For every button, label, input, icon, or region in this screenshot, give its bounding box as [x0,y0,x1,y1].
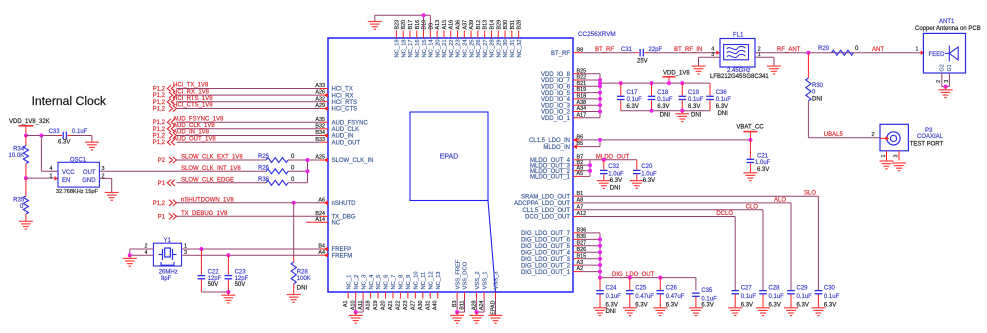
svg-text:SLOW_CLK_INT_1V8: SLOW_CLK_INT_1V8 [181,166,241,172]
svg-text:A22: A22 [395,301,401,311]
svg-text:VBAT_CC: VBAT_CC [736,124,764,130]
svg-text:DNI: DNI [297,286,308,292]
svg-text:A21: A21 [388,301,394,311]
svg-text:R34: R34 [13,147,25,153]
svg-text:0.1uF: 0.1uF [769,294,785,300]
svg-text:UBAL5: UBAL5 [824,132,844,138]
svg-text:R26: R26 [258,165,270,171]
svg-text:B9: B9 [428,23,434,30]
svg-text:NC_13: NC_13 [436,271,442,289]
svg-text:6.3V: 6.3V [635,302,647,308]
svg-text:G2: G2 [939,64,945,71]
svg-text:A37: A37 [462,20,468,30]
svg-text:GND: GND [82,178,96,184]
svg-text:TEST PORT: TEST PORT [910,142,944,148]
svg-text:Internal Clock: Internal Clock [32,94,107,108]
svg-text:FL1: FL1 [733,33,744,39]
svg-text:6.3V: 6.3V [666,302,678,308]
svg-text:B13: B13 [483,20,489,30]
svg-text:ALO: ALO [774,197,786,203]
svg-text:SLOW_CLK_EXT_1V8: SLOW_CLK_EXT_1V8 [181,155,243,161]
svg-text:A40: A40 [433,301,439,311]
svg-text:P1,2: P1,2 [153,201,166,207]
svg-text:FEED: FEED [929,52,946,58]
svg-text:A31: A31 [425,301,431,311]
svg-text:nSHUTDOWN_1V8: nSHUTDOWN_1V8 [181,197,234,203]
svg-text:A1: A1 [343,300,349,307]
svg-text:Y1: Y1 [164,238,172,244]
svg-text:4: 4 [50,166,53,172]
svg-text:C24: C24 [606,285,618,291]
svg-text:G1: G1 [947,64,953,71]
svg-text:NC_29: NC_29 [496,39,502,57]
svg-text:EN: EN [62,178,70,184]
svg-text:CLO: CLO [746,204,759,210]
svg-text:HCI_CTS_1V8: HCI_CTS_1V8 [173,103,213,109]
svg-text:26MHz: 26MHz [159,269,178,275]
svg-text:0.1uF: 0.1uF [716,97,732,103]
svg-text:FREFM: FREFM [332,253,353,259]
svg-text:A20: A20 [381,301,387,311]
svg-text:6.3V: 6.3V [741,302,753,308]
svg-text:DIG_LDO_OUT_2: DIG_LDO_OUT_2 [521,263,571,269]
svg-text:FREFP: FREFP [332,247,352,253]
svg-text:R28: R28 [297,269,309,275]
svg-text:P3: P3 [925,128,933,134]
svg-text:NC_15: NC_15 [422,39,428,57]
svg-text:A16: A16 [449,20,455,30]
svg-text:C35: C35 [701,288,713,294]
svg-text:NC: NC [332,220,341,226]
svg-text:DCO_LDO_OUT: DCO_LDO_OUT [525,215,570,221]
svg-text:DNI: DNI [660,113,671,119]
svg-text:DIG_LDO_OUT_7: DIG_LDO_OUT_7 [521,231,571,237]
svg-text:B12: B12 [476,20,482,30]
svg-text:P1,2: P1,2 [153,93,166,99]
svg-text:NC_6: NC_6 [384,275,390,290]
svg-text:B31: B31 [510,20,516,30]
svg-text:6.3V: 6.3V [769,302,781,308]
svg-text:VDD_IO_5: VDD_IO_5 [541,91,571,97]
svg-text:0: 0 [812,90,816,96]
svg-text:6.3V: 6.3V [701,302,713,308]
svg-text:NC_28: NC_28 [490,39,496,57]
svg-text:A15: A15 [442,20,448,30]
svg-text:0.47uF: 0.47uF [635,294,654,300]
svg-text:C21: C21 [757,153,769,159]
svg-text:B28: B28 [517,20,523,30]
svg-text:B10: B10 [422,20,428,30]
svg-text:1: 1 [50,174,53,180]
svg-text:6.3V: 6.3V [58,140,70,146]
svg-text:NC_5: NC_5 [376,275,382,290]
svg-text:2: 2 [936,80,942,83]
svg-text:R36: R36 [258,177,270,183]
svg-text:DCLO: DCLO [716,211,733,217]
svg-text:R25: R25 [258,154,270,160]
svg-text:P1,2: P1,2 [153,140,166,146]
svg-text:BT_RF: BT_RF [595,47,614,53]
svg-text:DNI: DNI [606,309,617,315]
svg-text:A13: A13 [435,20,441,30]
svg-text:NC_31: NC_31 [510,39,516,57]
svg-text:C17: C17 [627,90,639,96]
svg-text:EPAD: EPAD [440,154,459,161]
svg-text:A18: A18 [366,301,372,311]
svg-text:NC_21: NC_21 [442,39,448,57]
svg-text:C26: C26 [666,285,678,291]
svg-text:SLO: SLO [804,191,816,197]
svg-text:RF_ANT: RF_ANT [777,47,801,53]
svg-text:6.3V: 6.3V [757,167,769,173]
svg-text:HCI_RX: HCI_RX [332,93,354,99]
svg-text:ANT: ANT [872,47,884,53]
svg-text:R29: R29 [818,46,830,52]
svg-text:VSS_DCO: VSS_DCO [463,261,469,289]
svg-text:C30: C30 [824,285,836,291]
svg-text:AUD_CLK: AUD_CLK [332,127,360,133]
svg-text:HCI_RTS: HCI_RTS [332,100,358,106]
svg-text:NC_11: NC_11 [421,272,427,290]
svg-text:6.3V: 6.3V [688,104,700,110]
svg-text:AUD_FSYNC_1V8: AUD_FSYNC_1V8 [173,116,224,122]
svg-text:NC_10: NC_10 [414,271,420,289]
svg-text:C28: C28 [769,285,781,291]
svg-text:VDD_IO_8: VDD_IO_8 [541,72,571,78]
svg-text:0.1uF: 0.1uF [688,97,704,103]
svg-text:HCI_RX_1V8: HCI_RX_1V8 [173,89,210,95]
svg-text:0: 0 [291,177,295,183]
svg-text:NC_8: NC_8 [399,275,405,290]
svg-text:P1,2: P1,2 [153,107,166,113]
svg-text:6.3V: 6.3V [824,302,836,308]
svg-text:VDD_IO_7: VDD_IO_7 [541,78,571,84]
svg-text:P1,2: P1,2 [153,134,166,140]
svg-text:NC_24: NC_24 [463,39,469,58]
svg-text:VDD_1V8: VDD_1V8 [663,71,690,77]
svg-text:AUD_IN_1V8: AUD_IN_1V8 [173,130,210,136]
svg-text:10.0K: 10.0K [9,153,25,159]
svg-text:6.3V: 6.3V [716,104,728,110]
svg-text:VDD_IO_2: VDD_IO_2 [541,110,571,116]
svg-text:A14: A14 [315,217,325,223]
svg-text:CL1.5_LDO_OUT: CL1.5_LDO_OUT [522,208,570,214]
svg-text:OSC1: OSC1 [70,157,87,163]
svg-text:A23: A23 [403,301,409,311]
svg-text:DIG_LDO_OUT_5: DIG_LDO_OUT_5 [521,244,571,250]
svg-text:BT_RF: BT_RF [551,51,570,57]
svg-text:A27: A27 [410,301,416,311]
svg-text:50V: 50V [208,282,219,288]
svg-text:B17: B17 [408,20,414,30]
svg-text:NC_22: NC_22 [449,39,455,57]
svg-text:B16: B16 [415,20,421,30]
svg-text:P1: P1 [158,214,166,220]
svg-text:6.3V: 6.3V [657,104,669,110]
svg-text:VDD_IO_4: VDD_IO_4 [541,97,571,103]
svg-text:1: 1 [881,155,887,158]
svg-text:ADCPPA_LDO_OUT: ADCPPA_LDO_OUT [514,201,570,207]
svg-text:0.1uF: 0.1uF [741,294,757,300]
svg-text:B14: B14 [489,20,495,30]
svg-text:LFB212G45SG8C341: LFB212G45SG8C341 [710,74,769,80]
svg-text:NC_26: NC_26 [476,39,482,57]
svg-text:P1,2: P1,2 [153,127,166,133]
svg-text:50V: 50V [235,282,246,288]
svg-text:1.0uF: 1.0uF [641,171,657,177]
svg-text:1.0uF: 1.0uF [608,171,624,177]
svg-text:AUD_OUT: AUD_OUT [332,140,361,146]
svg-text:CL1.5_LDO_IN: CL1.5_LDO_IN [529,138,570,144]
svg-text:2: 2 [872,132,875,138]
svg-text:12pF: 12pF [235,276,249,282]
svg-text:Copper Antenna on PCB: Copper Antenna on PCB [915,26,981,32]
svg-text:DIG_LDO_OUT_6: DIG_LDO_OUT_6 [521,238,571,244]
svg-text:P1: P1 [158,181,166,187]
svg-text:NC_27: NC_27 [483,39,489,57]
svg-text:DNI: DNI [812,97,823,103]
svg-text:NC_23: NC_23 [456,39,462,57]
svg-text:NC_12: NC_12 [428,271,434,289]
svg-text:BT_RF_IN: BT_RF_IN [674,47,702,53]
svg-text:VDD_1V8_32K: VDD_1V8_32K [9,119,50,125]
svg-text:MLDO_IN: MLDO_IN [543,145,570,151]
svg-text:VCC: VCC [62,170,75,176]
svg-text:C19: C19 [688,90,700,96]
svg-text:12pF: 12pF [208,276,222,282]
svg-text:NC_3: NC_3 [361,275,367,290]
svg-text:B30: B30 [503,20,509,30]
svg-text:NC_18: NC_18 [401,39,407,57]
svg-text:B20: B20 [401,20,407,30]
svg-text:C29: C29 [797,285,809,291]
svg-text:3: 3 [102,166,105,172]
svg-text:NC_30: NC_30 [503,39,509,57]
svg-text:R35: R35 [13,197,25,203]
svg-text:6.3V: 6.3V [797,302,809,308]
svg-text:6.3V: 6.3V [610,178,622,184]
svg-text:DNI: DNI [691,113,702,119]
svg-text:NC_1: NC_1 [346,275,352,290]
svg-text:0.1uF: 0.1uF [824,294,840,300]
svg-text:ANT1: ANT1 [939,19,955,25]
svg-text:B29: B29 [496,20,502,30]
svg-text:C18: C18 [657,90,669,96]
svg-text:C25: C25 [635,285,647,291]
svg-text:P2: P2 [158,158,166,164]
svg-text:A30: A30 [418,301,424,311]
svg-text:0: 0 [855,46,859,52]
svg-text:1: 1 [916,47,919,53]
svg-text:VSS_3: VSS_3 [494,271,500,289]
svg-text:SLOW_CLK_EDGE: SLOW_CLK_EDGE [181,177,234,183]
svg-text:NC_2: NC_2 [354,275,360,290]
svg-text:VSS_2: VSS_2 [475,271,481,289]
svg-text:A39: A39 [469,20,475,30]
svg-text:DIG_LDO_OUT_3: DIG_LDO_OUT_3 [521,257,571,263]
svg-text:VDD_IO_3: VDD_IO_3 [541,103,571,109]
svg-text:C20: C20 [641,164,653,170]
svg-text:NC_25: NC_25 [469,39,475,57]
svg-text:B23: B23 [394,20,400,30]
svg-text:P1,2: P1,2 [153,120,166,126]
svg-text:C32: C32 [608,164,620,170]
svg-text:NC_14: NC_14 [429,39,435,58]
svg-text:100K: 100K [297,276,311,282]
svg-text:C27: C27 [741,285,753,291]
svg-text:TX_DEBUG_1V8: TX_DEBUG_1V8 [181,211,228,217]
svg-text:SRAM_LDO_OUT: SRAM_LDO_OUT [521,194,570,200]
svg-text:NC_19: NC_19 [395,39,401,57]
svg-text:DNI: DNI [718,111,729,117]
svg-text:SLOW_CLK_IN: SLOW_CLK_IN [332,158,374,164]
svg-text:NC_4: NC_4 [369,274,375,290]
svg-text:HCI_TX: HCI_TX [332,87,353,93]
svg-text:CC256XRVM: CC256XRVM [578,31,616,38]
svg-text:COAXIAL: COAXIAL [917,134,944,140]
svg-text:8pF: 8pF [161,276,172,282]
svg-text:HCI_CTS: HCI_CTS [332,107,358,113]
svg-text:AUD_OUT_1V8: AUD_OUT_1V8 [173,136,216,142]
svg-text:A19: A19 [373,301,379,311]
svg-text:VSS_FREF: VSS_FREF [455,259,461,289]
svg-text:3: 3 [893,155,899,158]
svg-text:MLDO_OUT: MLDO_OUT [596,154,630,160]
svg-text:nSHUTD: nSHUTD [332,201,357,207]
svg-text:0.1uF: 0.1uF [657,97,673,103]
svg-text:0.47uF: 0.47uF [666,294,685,300]
svg-text:0.1uF: 0.1uF [606,294,622,300]
svg-text:C36: C36 [716,90,728,96]
svg-text:22pF: 22pF [649,47,663,53]
svg-text:6.3V: 6.3V [606,302,618,308]
svg-text:6.3V: 6.3V [643,178,655,184]
svg-text:3: 3 [944,80,950,83]
svg-text:6.3V: 6.3V [627,104,639,110]
svg-text:C33: C33 [49,129,61,135]
svg-text:VDD_IO_6: VDD_IO_6 [541,85,571,91]
svg-text:C31: C31 [621,47,633,53]
svg-text:AUD_IN: AUD_IN [332,134,354,140]
svg-text:VDD_IO_1: VDD_IO_1 [541,116,571,122]
svg-text:0.1uF: 0.1uF [627,97,643,103]
svg-text:DIG_LDO_OUT_1: DIG_LDO_OUT_1 [521,270,571,276]
svg-text:A36: A36 [456,20,462,30]
svg-text:P1,2: P1,2 [153,100,166,106]
svg-text:25V: 25V [637,59,648,65]
svg-text:32.768KHz 15pF: 32.768KHz 15pF [56,189,99,195]
svg-text:NC_17: NC_17 [408,39,414,57]
svg-text:NC_16: NC_16 [415,39,421,57]
svg-text:DNI: DNI [610,186,621,192]
svg-text:0: 0 [291,154,295,160]
svg-text:HCI_TX_1V8: HCI_TX_1V8 [173,83,209,89]
svg-text:HCI_RTS_1V8: HCI_RTS_1V8 [173,96,213,102]
svg-text:DIG_LDO_OUT: DIG_LDO_OUT [612,272,655,278]
svg-text:MLDO_OUT_1: MLDO_OUT_1 [530,175,571,181]
svg-text:AUD_FSYNC: AUD_FSYNC [332,120,369,126]
svg-text:1.0uF: 1.0uF [755,160,771,166]
svg-text:0: 0 [291,165,295,171]
svg-text:VSS_1: VSS_1 [482,271,488,289]
svg-text:C23: C23 [235,269,247,275]
svg-text:NC_20: NC_20 [435,39,441,57]
svg-text:C22: C22 [208,269,220,275]
svg-text:NC_7: NC_7 [391,275,397,290]
svg-text:0.1uF: 0.1uF [72,129,88,135]
svg-text:AUD_CLK_1V8: AUD_CLK_1V8 [173,123,215,129]
svg-text:0.1uF: 0.1uF [797,294,813,300]
svg-text:DIG_LDO_OUT_4: DIG_LDO_OUT_4 [521,250,571,256]
svg-text:OUT: OUT [83,170,96,176]
svg-text:NC_9: NC_9 [406,275,412,290]
svg-text:R30: R30 [812,83,824,89]
svg-text:P1,2: P1,2 [153,87,166,93]
svg-text:NC_32: NC_32 [517,39,523,57]
